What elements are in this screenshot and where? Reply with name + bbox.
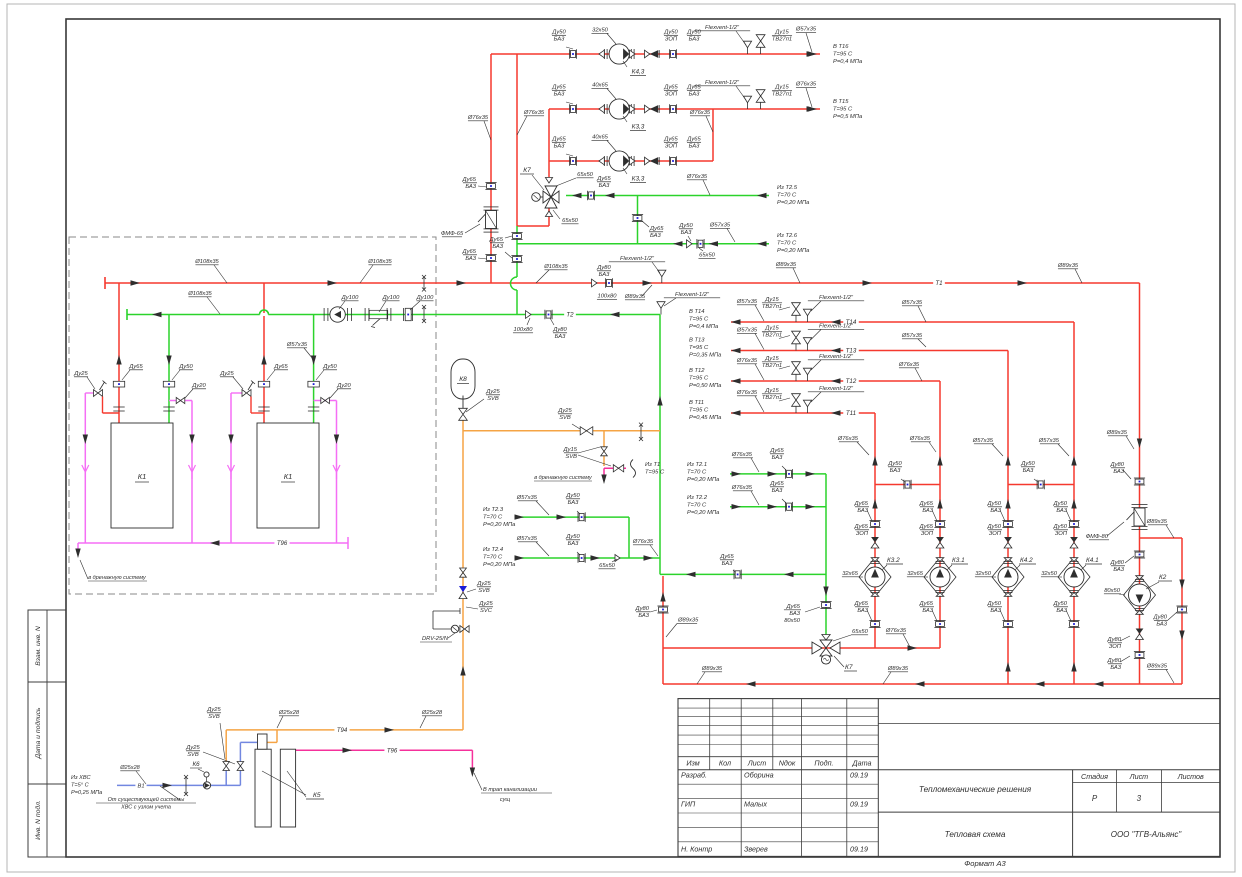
valve Ду50 БА3 lower К4.1 [1068, 620, 1079, 622]
check valve Ду65 ЗОП [645, 157, 650, 165]
svg-text:32х50: 32х50 [592, 28, 609, 34]
svg-text:Flexvent-1/2": Flexvent-1/2" [819, 295, 854, 301]
svg-text:Ø57х35: Ø57х35 [972, 438, 994, 444]
svg-text:БА3: БА3 [990, 508, 1001, 514]
valve Ду25 make-up top [460, 568, 467, 573]
wire green from T2.6 [517, 243, 769, 245]
svg-text:Ø89х35: Ø89х35 [1057, 263, 1079, 269]
valve Ду50 БА3 out [668, 49, 670, 59]
svg-text:Ду15: Ду15 [774, 30, 789, 36]
svg-text:Ду65: Ду65 [854, 524, 869, 530]
svg-text:ФМФ-80: ФМФ-80 [1086, 534, 1109, 540]
wire red pump column K3.1 [939, 381, 941, 648]
valve Ду20 [169, 400, 192, 402]
svg-text:Р=0,20 МПа: Р=0,20 МПа [777, 200, 810, 206]
wire orange drain stub [603, 431, 605, 466]
svg-text:Р: Р [1092, 794, 1098, 803]
svg-text:Ø25х28: Ø25х28 [421, 710, 443, 716]
valve Ду20 [314, 400, 337, 402]
svg-text:100х80: 100х80 [597, 294, 617, 300]
svg-text:Ду65: Ду65 [489, 237, 504, 243]
svg-text:К4,3: К4,3 [632, 69, 645, 76]
svg-text:Ду50: Ду50 [322, 364, 337, 370]
valve ТВ27п1 on Т11 [792, 394, 801, 400]
valve Ду80 БА3 on T1 drop [1134, 477, 1145, 479]
wire red K7 mixing line [663, 647, 940, 649]
svg-text:Ду50: Ду50 [1053, 501, 1068, 507]
svg-text:К3,3: К3,3 [632, 176, 645, 183]
valve Ду65 БА3 riser top [485, 182, 496, 184]
svg-text:Ду65: Ду65 [919, 501, 934, 507]
svg-text:Ду65: Ду65 [663, 137, 678, 143]
flow arrows green T2 [610, 312, 620, 317]
svg-text:БА3: БА3 [681, 230, 692, 236]
filter ФМФ-80 [1132, 503, 1148, 505]
check valve Ду65 ЗОП К3.1 [936, 537, 944, 543]
svg-text:БА3: БА3 [492, 244, 503, 250]
svg-text:БА3: БА3 [650, 233, 661, 239]
wire red line T14 [731, 321, 1074, 323]
svg-text:К7: К7 [845, 664, 853, 671]
pump K2 [1124, 576, 1156, 615]
svg-text:К4.1: К4.1 [1086, 557, 1099, 564]
wire green from T2.1 [730, 473, 826, 475]
svg-text:Ду50: Ду50 [1053, 601, 1068, 607]
svg-text:SVB: SVB [208, 714, 220, 720]
valve Ду65 БА3 row [568, 104, 570, 114]
valve on boiler supply [113, 381, 124, 387]
svg-text:Ду50: Ду50 [987, 524, 1002, 530]
svg-text:Формат А3: Формат А3 [964, 859, 1006, 868]
wire red pump row 3 [549, 160, 713, 162]
svg-text:Ду80: Ду80 [552, 327, 567, 333]
left stamp boxes [28, 610, 66, 857]
wire red K7 to pump rows 2-3 [548, 109, 550, 177]
svg-text:Ø76х35: Ø76х35 [632, 539, 654, 545]
svg-text:Изм: Изм [686, 759, 699, 768]
svg-text:Ду15: Ду15 [563, 447, 578, 453]
svg-text:Листов: Листов [1177, 772, 1204, 781]
svg-text:БА3: БА3 [772, 455, 783, 461]
filter ФМФ-65 [484, 206, 499, 208]
svg-text:К6: К6 [192, 761, 200, 768]
svg-text:Flexvent-1/2": Flexvent-1/2" [675, 292, 710, 298]
dashed boiler-room boundary [69, 237, 436, 594]
svg-text:Flexvent-1/2": Flexvent-1/2" [705, 80, 740, 86]
svg-text:Т94: Т94 [337, 728, 348, 734]
flow arrows pump rows [807, 51, 817, 56]
svg-text:Ø25х28: Ø25х28 [278, 710, 300, 716]
svg-text:Ø76х35: Ø76х35 [837, 436, 859, 442]
svg-text:К8: К8 [459, 376, 467, 383]
flow arrows Т14 [731, 319, 741, 324]
pump К4,3 [599, 50, 605, 58]
valve on boiler return [163, 381, 174, 387]
wire magenta drain header T96 [78, 542, 348, 544]
svg-text:Ø76х35: Ø76х35 [736, 390, 758, 396]
svg-text:Ду65: Ду65 [462, 249, 477, 255]
svg-text:Ду50: Ду50 [565, 493, 580, 499]
svg-text:Ø89х35: Ø89х35 [887, 666, 909, 672]
flex connector Ду100 [364, 308, 366, 321]
svg-text:Ø76х35: Ø76х35 [885, 628, 907, 634]
svg-text:В Т12: В Т12 [689, 368, 705, 374]
3-way mixing valve K7 [545, 178, 552, 184]
svg-text:БА3: БА3 [599, 272, 610, 278]
gap label T94 [334, 725, 349, 734]
svg-text:К1: К1 [138, 472, 147, 481]
wire magenta drop b1 left [84, 393, 86, 543]
svg-text:Зверев: Зверев [744, 845, 768, 854]
svg-text:ЗОП: ЗОП [856, 531, 869, 537]
svg-text:Ду20: Ду20 [191, 383, 206, 389]
check valve Ду65 ЗОП К3.2 [871, 537, 879, 543]
svg-text:БА3: БА3 [689, 37, 700, 43]
gap label T96 [274, 539, 289, 548]
svg-text:Р=0,20 МПа: Р=0,20 МПа [483, 562, 516, 568]
capped stub B1 [185, 777, 187, 794]
svg-text:Т1: Т1 [935, 280, 942, 287]
wire red crossover K4 [1008, 484, 1074, 486]
svg-text:Р=0,20 МПа: Р=0,20 МПа [687, 510, 720, 516]
svg-text:32х65: 32х65 [907, 571, 924, 577]
3-way mixing valve K7 low [812, 642, 822, 654]
outlet arrow [808, 106, 818, 111]
valve Ду50 БА3 lower К4.2 [1002, 620, 1013, 622]
svg-text:65х50: 65х50 [577, 172, 594, 178]
air vent on Т11 [803, 400, 811, 407]
svg-text:Ду50: Ду50 [987, 601, 1002, 607]
svg-text:БА3: БА3 [857, 508, 868, 514]
svg-text:Т=95 С: Т=95 С [689, 408, 709, 414]
reducer to K7 [822, 635, 830, 641]
svg-text:Ø108х35: Ø108х35 [367, 259, 392, 265]
valve Ду65 БА3 T2.2 [784, 502, 786, 512]
wire red pump column K4.1 [1073, 322, 1075, 684]
water heater K5 [255, 749, 271, 827]
svg-text:Т=70 С: Т=70 С [483, 555, 503, 561]
svg-text:БА3: БА3 [1110, 665, 1121, 671]
svg-text:SVB: SVB [565, 454, 577, 460]
svg-text:БА3: БА3 [568, 541, 579, 547]
svg-text:БА3: БА3 [689, 144, 700, 150]
svg-text:Р=0,50 МПа: Р=0,50 МПа [689, 383, 722, 389]
valve Ду65 БА3 out [668, 104, 670, 114]
valve Ду50 БА3 column К4.2 [1002, 520, 1013, 522]
svg-text:SVB: SVB [187, 752, 199, 758]
svg-text:Р=0,20 МПа: Р=0,20 МПа [483, 522, 516, 528]
svg-text:ТВ27п1: ТВ27п1 [762, 333, 782, 339]
svg-text:Ду50: Ду50 [565, 534, 580, 540]
wire orange T94 [226, 729, 463, 731]
valve Ду25 SVB blue1 [223, 762, 230, 767]
svg-text:SVB: SVB [478, 588, 490, 594]
wire orange heater feed [276, 730, 278, 743]
svg-text:Лист: Лист [747, 759, 767, 768]
svg-text:В Т16: В Т16 [833, 44, 849, 50]
svg-text:К3,3: К3,3 [632, 124, 645, 131]
svg-text:БА3: БА3 [890, 468, 901, 474]
svg-text:К7: К7 [523, 167, 531, 174]
svg-text:80х50: 80х50 [784, 618, 801, 624]
svg-text:09.19: 09.19 [850, 771, 868, 780]
wire orange branch [463, 430, 660, 432]
svg-text:сущ: сущ [500, 797, 511, 803]
svg-text:ЗОП: ЗОП [1109, 644, 1122, 650]
svg-text:Ду65: Ду65 [462, 177, 477, 183]
svg-text:БА3: БА3 [857, 608, 868, 614]
svg-text:Ду65: Ду65 [919, 601, 934, 607]
pump К3.2 [859, 558, 891, 597]
svg-text:Ду25: Ду25 [478, 601, 493, 607]
svg-text:Р=0,4 МПа: Р=0,4 МПа [689, 324, 719, 330]
svg-text:Ø76х35: Ø76х35 [909, 436, 931, 442]
svg-text:БА3: БА3 [789, 611, 800, 617]
svg-text:Ду65: Ду65 [686, 137, 701, 143]
air vent Flexvent-1/2" [743, 41, 751, 48]
wire red pump row 2 [549, 108, 820, 110]
drain funnels [82, 465, 89, 472]
wire green boiler1 return drop [168, 315, 170, 424]
svg-text:Т=95 С: Т=95 С [833, 107, 853, 113]
svg-text:в дренажную систему: в дренажную систему [534, 475, 593, 481]
pump Ду100 recirculation [323, 308, 325, 321]
wire red T1 right drop [1139, 283, 1141, 684]
valve Ду100 [403, 308, 405, 321]
pump К4.1 [1058, 558, 1090, 597]
pump К3,3 [599, 105, 605, 113]
check valve Ду50 ЗОП К4.2 [1004, 537, 1012, 543]
flow arrows Т13 [731, 348, 741, 353]
check valve Ду80 ЗОП K2 [1136, 629, 1144, 635]
svg-text:Т12: Т12 [846, 378, 857, 385]
air vent Flexvent on T2 junction [657, 302, 665, 309]
svg-text:Ø57х35: Ø57х35 [736, 328, 758, 334]
svg-text:К1: К1 [284, 472, 293, 481]
svg-text:Р=0,25 МПа: Р=0,25 МПа [71, 790, 102, 796]
svg-text:Ду20: Ду20 [336, 383, 351, 389]
svg-text:SVB: SVB [559, 415, 571, 421]
pump К4.2 [992, 558, 1024, 597]
valve Ду65 БА3 lower К3.2 [869, 620, 880, 622]
pressure reducer DRV-25/N [433, 610, 460, 612]
valve Ду65 БА3 riser bottom [485, 254, 496, 256]
svg-text:Из Т2.2: Из Т2.2 [687, 495, 708, 501]
svg-text:Ø76х35: Ø76х35 [736, 358, 758, 364]
gap label T96 low [384, 746, 399, 755]
svg-text:БА3: БА3 [922, 608, 933, 614]
svg-text:БА3: БА3 [990, 608, 1001, 614]
svg-text:ООО "ТГВ-Альянс": ООО "ТГВ-Альянс" [1111, 830, 1183, 839]
svg-text:Ду65: Ду65 [596, 176, 611, 182]
svg-text:Т=95 С: Т=95 С [689, 345, 709, 351]
flow arrows red header [131, 280, 141, 285]
svg-text:SVB: SVB [487, 396, 499, 402]
flow arrows green T2.5 T2.6 [572, 193, 582, 198]
svg-text:Т2: Т2 [566, 312, 574, 319]
svg-text:Ø76х35: Ø76х35 [731, 452, 753, 458]
valve Ду65 БА3 low green [733, 570, 735, 580]
svg-text:К4.2: К4.2 [1020, 557, 1033, 564]
svg-text:Ø76х35: Ø76х35 [731, 485, 753, 491]
svg-text:32х65: 32х65 [842, 571, 859, 577]
svg-text:БА3: БА3 [568, 500, 579, 506]
boiler K1 #2 [257, 423, 319, 528]
svg-text:ТВ27п1: ТВ27п1 [772, 37, 792, 43]
valve Ду25 SVB under K8 [459, 408, 468, 414]
wire red line T12 [731, 380, 940, 382]
svg-text:Ø57х35: Ø57х35 [516, 495, 538, 501]
check valve Ду50 ЗОП К4.1 [1070, 537, 1078, 543]
svg-text:ФМФ-65: ФМФ-65 [441, 231, 464, 237]
valve Ду65 БА3 column К3.1 [934, 520, 945, 522]
svg-text:Ду65: Ду65 [686, 85, 701, 91]
svg-text:Ду65: Ду65 [128, 364, 143, 370]
svg-text:Ду65: Ду65 [551, 85, 566, 91]
svg-text:Малых: Малых [744, 800, 767, 809]
svg-text:БА3: БА3 [599, 183, 610, 189]
svg-text:Лист: Лист [1129, 772, 1149, 781]
svg-text:в дренажную систему: в дренажную систему [88, 575, 147, 581]
flow arrows green T2.1-T2.4 [732, 471, 742, 476]
svg-text:Flexvent-1/2": Flexvent-1/2" [819, 324, 854, 330]
wire red branch to right loop [1140, 537, 1183, 539]
outlet arrow [808, 51, 818, 56]
svg-text:В Т14: В Т14 [689, 309, 704, 315]
svg-text:3: 3 [1137, 794, 1142, 803]
svg-text:Ду65: Ду65 [786, 604, 801, 610]
check valve Ду65 ЗОП [645, 105, 650, 113]
svg-text:Т96: Т96 [387, 748, 398, 754]
svg-text:Т=70 С: Т=70 С [777, 241, 797, 247]
valve Ду50 БА3 T2.4 [577, 553, 579, 563]
svg-text:БА3: БА3 [1023, 468, 1034, 474]
svg-text:Ø108х35: Ø108х35 [543, 264, 568, 270]
svg-text:Ду15: Ду15 [764, 356, 779, 362]
wire green main down riser [659, 315, 661, 575]
svg-text:Тепломеханические решения: Тепломеханические решения [919, 785, 1032, 794]
svg-text:ТВ27п1: ТВ27п1 [762, 395, 782, 401]
svg-text:БА3: БА3 [638, 613, 649, 619]
svg-text:Т=95 С: Т=95 С [645, 470, 665, 476]
air vent on Т14 [803, 309, 811, 316]
svg-text:ТВ27п1: ТВ27п1 [762, 363, 782, 369]
svg-text:Ø25х28: Ø25х28 [119, 765, 140, 771]
air vent on Т12 [803, 368, 811, 375]
svg-text:Ø57х35: Ø57х35 [709, 223, 731, 229]
svg-text:БА3: БА3 [1113, 469, 1124, 475]
drain arrow and text [601, 475, 606, 485]
svg-text:Ду65: Ду65 [854, 501, 869, 507]
svg-text:ГИП: ГИП [681, 800, 696, 809]
wire green from T2.3 [516, 516, 629, 518]
wire blue risers to K5 [225, 770, 227, 785]
svg-text:Ду15: Ду15 [764, 326, 779, 332]
wire red riser to pump row 1 [490, 54, 492, 283]
svg-text:Н. Контр: Н. Контр [681, 845, 712, 854]
svg-text:Ду50: Ду50 [1020, 461, 1035, 467]
svg-text:Р=0,45 МПа: Р=0,45 МПа [689, 415, 722, 421]
svg-text:Ду80: Ду80 [1110, 462, 1125, 468]
svg-text:Ду80: Ду80 [1110, 560, 1125, 566]
svg-text:Ду50: Ду50 [887, 461, 902, 467]
reducer 100х80 valve Ду80 БА3 on T2 [526, 311, 532, 319]
svg-text:80х50: 80х50 [1104, 588, 1121, 594]
wire red boiler2 supply drop [263, 283, 265, 423]
svg-text:Ду80: Ду80 [635, 606, 650, 612]
svg-text:ЗОП: ЗОП [665, 92, 678, 98]
svg-text:Ду50: Ду50 [987, 501, 1002, 507]
svg-text:Р=0,35 МПа: Р=0,35 МПа [689, 353, 722, 359]
svg-text:Ø76х35: Ø76х35 [467, 115, 489, 121]
svg-text:БА3: БА3 [554, 37, 565, 43]
wire red crossover K3 [875, 484, 940, 486]
wire green boiler2 return drop [313, 315, 315, 424]
svg-text:Ø57х35: Ø57х35 [516, 536, 538, 542]
svg-text:Стадия: Стадия [1081, 772, 1108, 781]
svg-text:ТВ27п1: ТВ27п1 [772, 92, 792, 98]
svg-text:Flexvent-1/2": Flexvent-1/2" [705, 25, 740, 31]
reducer 100х80 and valve Ду80 БА3 on T1 [592, 279, 598, 287]
svg-text:В Т11: В Т11 [689, 400, 704, 406]
svg-text:Ду25: Ду25 [73, 371, 88, 377]
svg-text:Ø89х35: Ø89х35 [701, 666, 723, 672]
svg-text:Ду15: Ду15 [764, 297, 779, 303]
flow arrows magenta drops [83, 435, 88, 445]
valve Ду65 БА3 on T2.5 [586, 191, 588, 201]
svg-text:65х50: 65х50 [852, 629, 869, 635]
svg-text:ЗОП: ЗОП [989, 531, 1002, 537]
svg-text:БА3: БА3 [554, 144, 565, 150]
gap label B1 [135, 781, 146, 790]
svg-text:Ду65: Ду65 [769, 448, 784, 454]
svg-text:Ø57х35: Ø57х35 [286, 342, 308, 348]
svg-text:Ду100: Ду100 [341, 295, 359, 301]
svg-text:Т96: Т96 [277, 541, 288, 547]
valves Ду65 БА3 green riser [511, 232, 522, 234]
valve Ду50 БА3 with reducer on T2.6 [687, 240, 693, 248]
wire magenta from T1 drain [604, 467, 626, 469]
flow arrows boiler drops [116, 355, 121, 365]
svg-text:Дата: Дата [852, 759, 872, 768]
svg-text:Ду65: Ду65 [854, 601, 869, 607]
svg-text:Ø89х35: Ø89х35 [1146, 519, 1168, 525]
svg-text:Ø89х35: Ø89х35 [775, 262, 797, 268]
valve Ду65 БА3 out [668, 156, 670, 166]
thermo valve ТВ27п1 Ду15 [756, 35, 765, 41]
svg-text:09.19: 09.19 [850, 845, 868, 854]
svg-text:Flexvent-1/2": Flexvent-1/2" [819, 354, 854, 360]
flow arrows bottom utility [385, 727, 395, 732]
valve on boiler return [308, 381, 319, 387]
svg-text:Ду15: Ду15 [764, 388, 779, 394]
boiler K1 #1 [111, 423, 173, 528]
svg-text:Ø108х35: Ø108х35 [187, 291, 212, 297]
valve Ду65 БА3 green drop to K7 [820, 601, 831, 603]
svg-text:DRV-25/N: DRV-25/N [422, 636, 449, 642]
valve ТВ27п1 on Т14 [792, 303, 801, 309]
valve ТВ27п1 on Т13 [792, 331, 801, 337]
svg-text:БА3: БА3 [772, 488, 783, 494]
svg-text:Р=0,4 МПа: Р=0,4 МПа [833, 59, 863, 65]
svg-text:БА3: БА3 [1056, 508, 1067, 514]
svg-text:Т=70 С: Т=70 С [777, 193, 797, 199]
check valve Ду50 ЗОП [645, 50, 650, 58]
svg-text:Ду25: Ду25 [185, 745, 200, 751]
svg-text:Ду100: Ду100 [416, 295, 434, 301]
safety valve Ду25 SVB [459, 586, 467, 592]
svg-text:40х65: 40х65 [592, 83, 609, 89]
